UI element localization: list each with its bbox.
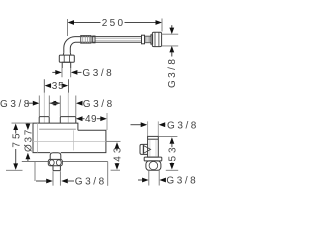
valve nut	[146, 161, 161, 170]
outlet stub pipe	[53, 166, 60, 171]
wire dim 250 line right segment	[125, 22, 157, 24]
valve stub pipe below nut	[149, 170, 159, 185]
elbow nut	[59, 55, 74, 62]
svg-text:49: 49	[85, 114, 97, 125]
dim 43	[113, 142, 124, 170]
svg-text:G3/8: G3/8	[83, 99, 115, 110]
dim 75	[11, 124, 22, 170]
wire dim 250 line left segment	[73, 22, 101, 24]
svg-text:53: 53	[168, 144, 179, 161]
elbow thread pipe below nut	[62, 62, 70, 68]
wire ext lines outlet	[53, 171, 60, 185]
valve body platform	[33, 123, 78, 130]
wire ext lines valve top	[148, 121, 159, 136]
dim 53 top tick	[159, 135, 177, 137]
body centerline	[33, 140, 106, 142]
wire ext line left of 250	[67, 19, 69, 36]
svg-text:250: 250	[102, 18, 126, 29]
stub collar 1	[39, 117, 49, 124]
dim 35 arrows	[45, 83, 52, 88]
dim 53 bottom tick	[166, 169, 178, 171]
svg-text:G3/8: G3/8	[75, 176, 107, 187]
svg-text:G3/8: G3/8	[0, 99, 32, 110]
outlet dome	[50, 153, 61, 160]
valve outlet cone	[144, 146, 151, 154]
wire centerline stub1	[43, 93, 45, 123]
dim 53	[168, 137, 179, 169]
wire ext line right of 250	[161, 19, 163, 32]
wire ext line nut top right	[162, 33, 179, 35]
node 250 left arrow	[68, 20, 75, 25]
dim 75 bottom tick	[6, 169, 23, 171]
wire ext lines thread pipe	[62, 68, 71, 77]
valve inner lines	[150, 140, 156, 158]
wire ext line nut bottom right	[162, 45, 179, 47]
dim G3/8 outlet arrows	[36, 180, 46, 182]
hose elbow inner arc	[70, 42, 75, 53]
wire bent leader right	[107, 162, 109, 186]
hose crimp ferrule	[81, 36, 95, 44]
wire ext lines stub2	[60, 96, 76, 117]
valve body main outline	[33, 123, 106, 153]
dim Ø37	[24, 123, 35, 161]
outlet nut	[48, 159, 62, 165]
long reference line under nut	[22, 161, 108, 163]
svg-text:35: 35	[52, 81, 65, 92]
body left cap line	[37, 123, 39, 153]
hose end washer	[151, 35, 153, 44]
wire centerline stub2	[67, 93, 69, 123]
node arrow up to nut bottom	[169, 46, 174, 53]
valve outlet inner face	[142, 144, 144, 154]
wire ext line 49 right	[106, 113, 108, 130]
hose elbow outer arc	[64, 37, 75, 53]
body interior line	[72, 130, 74, 150]
dim 35 ext lines	[44, 79, 68, 92]
dim 43 bottom tick	[111, 169, 120, 171]
node arrow down to nut top	[171, 25, 173, 28]
elbow taper to nut	[63, 53, 71, 55]
node 250 right arrow	[156, 20, 163, 25]
hose end nut	[152, 32, 161, 46]
dim 49 right arrow	[97, 118, 101, 120]
hose top edge	[75, 36, 142, 38]
dim arrow to stub2 right	[76, 101, 83, 106]
hose inner line 1	[96, 38, 142, 40]
node bowtie arrows between stubs	[50, 101, 57, 106]
svg-text:G3/8: G3/8	[167, 120, 199, 131]
dim 49 left arrow	[76, 116, 83, 121]
body bore line	[39, 128, 76, 130]
svg-text:G3/8: G3/8	[166, 176, 198, 187]
hose end ferrule band	[142, 35, 145, 44]
stub collar 2	[60, 117, 76, 124]
wire ext lines stub1	[39, 96, 49, 117]
valve vertical body	[148, 136, 159, 157]
dim arrow to stub1	[28, 102, 34, 104]
svg-text:Ø37: Ø37	[24, 128, 35, 152]
dim 75 top tick	[12, 122, 34, 124]
svg-text:G3/8: G3/8	[167, 57, 178, 88]
hose inner line 2	[96, 39, 142, 41]
svg-text:43: 43	[113, 145, 124, 162]
valve shoulder ring	[144, 157, 162, 161]
dim G3/8 bottom arrows right	[138, 179, 142, 181]
svg-text:75: 75	[11, 130, 22, 147]
hose bottom edge	[75, 41, 142, 43]
valve side outlet box	[140, 144, 148, 154]
dim G3/8 elbow arrows	[52, 71, 55, 73]
valve cap band	[148, 138, 159, 140]
hose end thread section	[145, 36, 151, 43]
wire bent leader left	[34, 162, 36, 182]
dim 43 top tick	[106, 140, 121, 142]
dim G3/8 top arrows	[131, 124, 142, 126]
svg-text:G3/8: G3/8	[82, 68, 114, 79]
